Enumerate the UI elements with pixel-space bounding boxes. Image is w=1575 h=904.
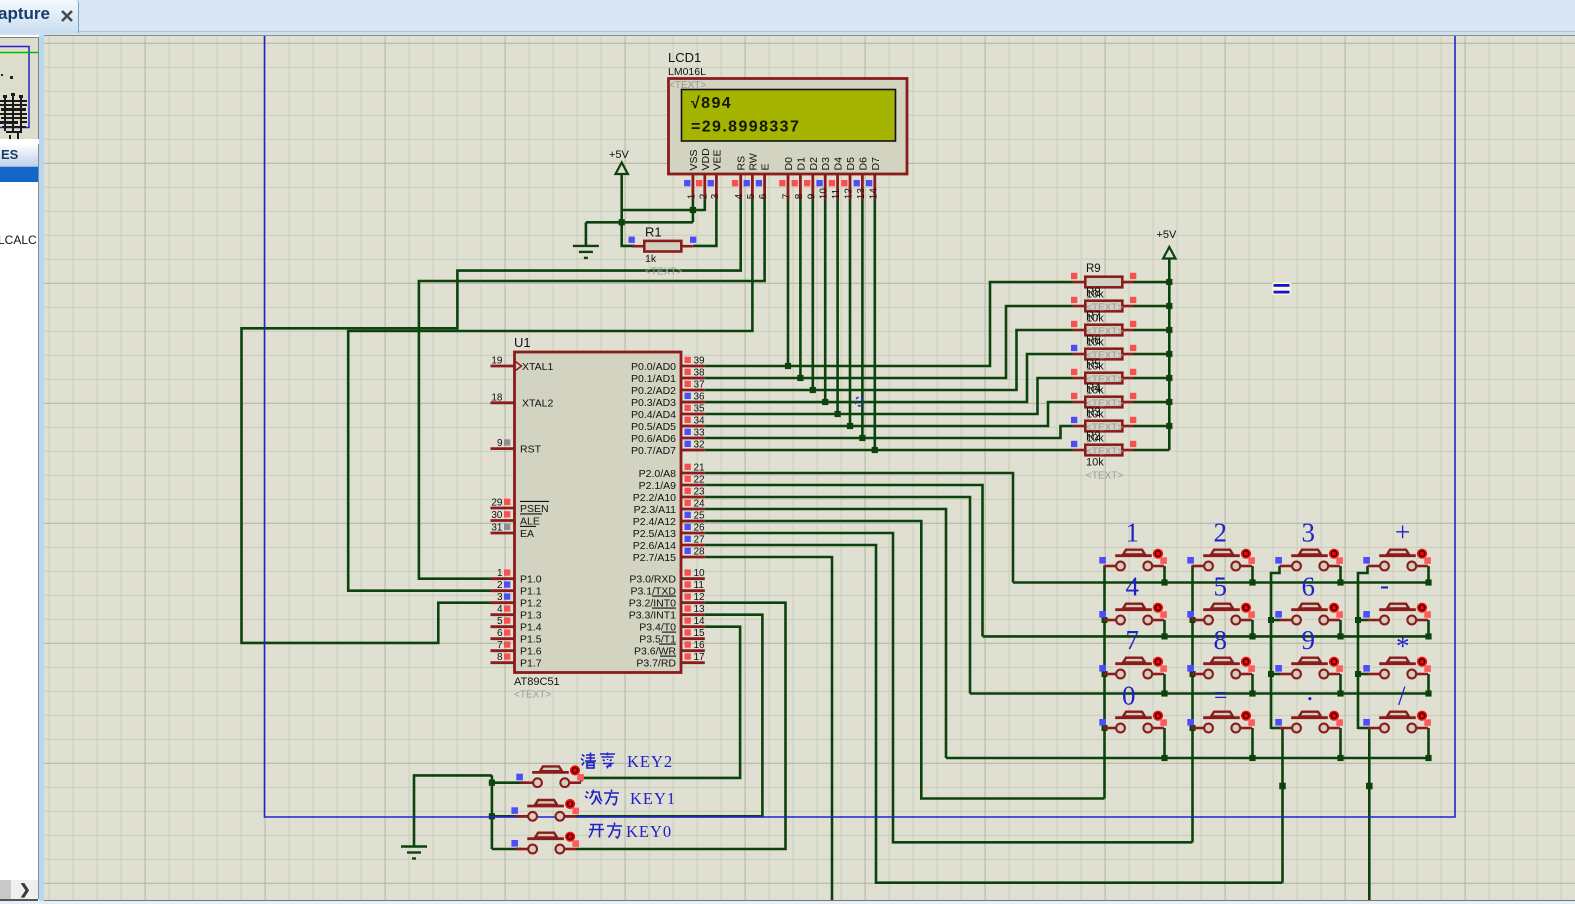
key r2c2 blue state square — [1187, 611, 1194, 618]
node junction D6/P0.6 — [859, 435, 865, 441]
svg-text:12: 12 — [694, 592, 706, 603]
U1 pin 17 P3.7/RD — [681, 661, 705, 664]
U1 pin 38 P0.1/AD1 — [681, 377, 705, 380]
wire keypad row1 bus — [1013, 581, 1430, 584]
node junction rail/R7 — [1166, 327, 1172, 333]
svg-text:4: 4 — [497, 604, 503, 615]
wire net P2.7 from U1 to keypad — [705, 557, 832, 904]
svg-text:4: 4 — [734, 193, 745, 199]
node junction D5/P0.5 — [847, 423, 853, 429]
svg-text:8: 8 — [497, 652, 503, 663]
U1 pin 10 P3.0/RXD — [681, 577, 705, 580]
svg-text:=: = — [1214, 683, 1228, 709]
key r1c1 blue state square — [1099, 557, 1106, 564]
U1 pin 39 P0.0/AD0 — [681, 365, 705, 368]
node junction col2 stub — [1190, 617, 1196, 623]
svg-text:21: 21 — [694, 463, 706, 474]
wire R9 right lead to +5V rail — [1133, 281, 1169, 284]
wire keypad row3 bus — [970, 692, 1430, 695]
svg-text:VDD: VDD — [700, 148, 712, 171]
wire net P3.4 to KEY2 — [581, 627, 740, 782]
svg-text:34: 34 — [694, 416, 706, 427]
svg-text:R9: R9 — [1086, 263, 1101, 275]
R4 labels and state squares — [1071, 383, 1136, 434]
node junction r1c2/row bus — [1249, 579, 1255, 585]
wire LCD D7 vertical to P0.7 row — [873, 200, 876, 451]
svg-text:PSEN: PSEN — [520, 503, 549, 515]
wire net P2.5 from U1 to keypad — [705, 533, 1193, 842]
wire keypad btn r4c3 right drop — [1339, 728, 1342, 758]
svg-text:+: + — [1395, 517, 1410, 547]
svg-text:P2.5/A13: P2.5/A13 — [633, 528, 676, 540]
node junction D0/P0.0 — [785, 363, 791, 369]
key r2c1 blue state square — [1099, 611, 1106, 618]
node junction r1c3/row bus — [1337, 579, 1343, 585]
svg-text:P0.6/AD6: P0.6/AD6 — [631, 433, 676, 445]
svg-text:26: 26 — [694, 523, 706, 534]
wire net P3.3 to KEY1 — [576, 615, 762, 817]
svg-text:28: 28 — [694, 547, 706, 558]
svg-text:VEE: VEE — [711, 149, 723, 170]
svg-text:R5: R5 — [1086, 359, 1101, 371]
wire net P2.2 from U1 to keypad — [705, 497, 970, 694]
wire keypad column 4 — [1358, 566, 1369, 904]
svg-text:P3.3/INT1: P3.3/INT1 — [629, 610, 676, 622]
svg-text:7: 7 — [497, 640, 503, 651]
wire keypad btn r2c1 right drop — [1163, 620, 1166, 636]
svg-text:RW: RW — [747, 153, 759, 170]
node junction r2c3/row bus — [1337, 633, 1343, 639]
svg-text:P1.0: P1.0 — [520, 574, 542, 586]
push button key "0" (r4c1) — [1104, 711, 1167, 733]
R5 labels and state squares — [1071, 359, 1136, 410]
node junction KEY1 tap — [489, 813, 495, 819]
wire net P0.5 from U1 to R4 — [705, 402, 1074, 426]
wire net RS: LCD RS to U1 P1.2 — [242, 200, 741, 643]
svg-text:22: 22 — [694, 475, 706, 486]
svg-text:/: / — [1398, 681, 1406, 711]
U1 pin 4 P1.3 — [491, 613, 515, 616]
svg-text:LCD1: LCD1 — [668, 50, 701, 65]
U1 pin 7 P1.6 — [491, 649, 515, 652]
key r2c4 blue state square — [1363, 611, 1370, 618]
U1 pin 16 P3.6/WR — [681, 649, 705, 652]
svg-text:31: 31 — [491, 523, 503, 534]
wire LCD D1 vertical to P0.1 row — [799, 200, 802, 379]
node junction rail/R8 — [1166, 303, 1172, 309]
key r4c3 blue state square — [1275, 719, 1282, 726]
resistor R7 — [1073, 325, 1134, 336]
wire net P0.4 from U1 to R5 — [705, 378, 1074, 414]
svg-text:D4: D4 — [833, 157, 845, 171]
U1 pin 6 P1.5 — [491, 637, 515, 640]
wire LCD D0 vertical to P0.0 row — [787, 200, 790, 367]
key r4c2 blue state square — [1187, 719, 1194, 726]
svg-text:P0.3/AD3: P0.3/AD3 — [631, 397, 676, 409]
wire net P0.2 from U1 to R7 — [705, 330, 1074, 390]
svg-text:32: 32 — [694, 440, 706, 451]
wire keypad btn r4c4 right drop — [1427, 728, 1430, 758]
svg-text:1: 1 — [1126, 518, 1140, 548]
U1 pin 28 P2.7/A15 — [681, 556, 705, 559]
svg-text:10: 10 — [819, 188, 830, 200]
svg-text:D0: D0 — [783, 157, 795, 171]
svg-text:P3.7/RD: P3.7/RD — [636, 658, 676, 670]
svg-text:10: 10 — [694, 568, 706, 579]
node junction KEY2 tap — [489, 780, 495, 786]
node junction +5V/H2 — [619, 219, 625, 225]
U1 pin 27 P2.6/A14 — [681, 544, 705, 547]
node junction D3/P0.3 — [822, 399, 828, 405]
svg-text:P0.4/AD4: P0.4/AD4 — [631, 409, 676, 421]
node junction col3 lower — [1279, 783, 1286, 790]
node junction col1 stub — [1102, 617, 1108, 623]
KEY0 label (kai fang KEY0) — [589, 825, 604, 838]
svg-text:P1.2: P1.2 — [520, 598, 542, 610]
svg-text:3: 3 — [1302, 518, 1316, 548]
key r3c4 blue state square — [1363, 665, 1370, 672]
svg-text:RS: RS — [736, 156, 748, 171]
resistor R4 — [1073, 397, 1134, 408]
node junction col1 row4 — [1102, 725, 1108, 731]
wire net P2.3 from U1 to keypad — [705, 509, 946, 758]
node junction col2 row4 — [1190, 725, 1196, 731]
U1 pin 33 P0.6/AD6 — [681, 437, 705, 440]
wire net P0.1 from U1 to R8 — [705, 306, 1074, 378]
node junction r3c2/row bus — [1249, 690, 1255, 696]
resistor R9 — [1073, 277, 1134, 288]
R2 labels and state squares — [1071, 431, 1136, 482]
svg-text:P0.1/AD1: P0.1/AD1 — [631, 373, 676, 385]
node junction r3c1/row bus — [1161, 690, 1167, 696]
U1 XTAL1 clock input symbol — [516, 362, 522, 371]
wire R3 right lead to +5V rail — [1133, 425, 1169, 428]
svg-text:P0.7/AD7: P0.7/AD7 — [631, 445, 676, 457]
power +5V at resistor rail — [1157, 229, 1178, 259]
svg-text:0: 0 — [1122, 681, 1136, 711]
svg-text:33: 33 — [694, 428, 706, 439]
svg-text:9: 9 — [497, 438, 503, 449]
U1 pin 34 P0.5/AD5 — [681, 425, 705, 428]
key r2c3 blue state square — [1275, 611, 1282, 618]
svg-text:3: 3 — [497, 592, 503, 603]
wire net E: LCD E to U1 P1.0 — [419, 200, 765, 579]
node junction col4 stub — [1355, 617, 1361, 623]
svg-text:27: 27 — [694, 535, 706, 546]
push button key "9" (r3c3) — [1280, 657, 1343, 679]
svg-text:5: 5 — [497, 616, 503, 627]
svg-text:P0.0/AD0: P0.0/AD0 — [631, 361, 676, 373]
svg-text:XTAL1: XTAL1 — [522, 361, 553, 373]
wire net P2.0 from U1 to keypad — [705, 473, 1013, 583]
wire net P3.2 to KEY0 — [576, 603, 786, 849]
U1 pin 26 P2.5/A13 — [681, 532, 705, 535]
U1 pin 5 P1.4 — [491, 625, 515, 628]
svg-text:18: 18 — [491, 392, 503, 403]
svg-text:P2.3/A11: P2.3/A11 — [634, 504, 677, 516]
svg-text:6: 6 — [1302, 572, 1316, 602]
svg-text:KEY2: KEY2 — [627, 752, 673, 771]
wire net P0.7 from U1 to R2 — [705, 449, 1074, 452]
svg-text:P2.0/A8: P2.0/A8 — [639, 468, 677, 480]
svg-text:E: E — [760, 163, 772, 170]
U1 pin 37 P0.2/AD2 — [681, 389, 705, 392]
wire net P0.0 from U1 to R9 — [705, 282, 1074, 366]
wire ground stem near LCD — [585, 222, 588, 245]
svg-text:R1: R1 — [645, 225, 662, 240]
svg-text:R4: R4 — [1086, 383, 1101, 395]
node junction rail/R3 — [1166, 423, 1172, 429]
node junction r3c3/row bus — [1337, 690, 1343, 696]
push button key "3" (r1c3) — [1280, 549, 1343, 571]
wire R5 right lead to +5V rail — [1133, 377, 1169, 380]
svg-text:16: 16 — [694, 640, 706, 651]
node junction r2c1/row bus — [1161, 633, 1167, 639]
R7 labels and state squares — [1071, 311, 1136, 362]
wire keypad btn r4c2 right drop — [1251, 728, 1254, 758]
svg-text:P2.1/A9: P2.1/A9 — [639, 480, 677, 492]
svg-text:39: 39 — [694, 356, 706, 367]
wire keypad btn r4c1 right drop — [1163, 728, 1166, 758]
resistor R6 — [1073, 349, 1134, 360]
svg-text:2: 2 — [497, 580, 503, 591]
svg-text:P1.7: P1.7 — [520, 658, 542, 670]
KEY2 label (qing ling KEY2) — [581, 753, 596, 769]
wire keypad btn r3c2 right drop — [1251, 674, 1254, 694]
svg-text:XTAL2: XTAL2 — [522, 398, 553, 410]
node junction r3c4/row bus — [1425, 690, 1431, 696]
svg-text:29: 29 — [491, 498, 503, 509]
svg-text:11: 11 — [831, 188, 842, 199]
svg-text:9: 9 — [1302, 625, 1316, 655]
svg-text:24: 24 — [694, 499, 706, 510]
svg-text:<TEXT>: <TEXT> — [669, 80, 706, 91]
svg-text:P2.7/A15: P2.7/A15 — [633, 552, 676, 564]
sheet border (blue) — [265, 30, 1456, 817]
svg-text:+5V: +5V — [1157, 229, 1178, 241]
resistor R1 — [632, 241, 693, 252]
svg-text:D3: D3 — [820, 157, 832, 171]
key r3c3 blue state square — [1275, 665, 1282, 672]
R1 state squares — [629, 237, 635, 243]
wire keypad btn r1c2 right drop — [1251, 566, 1254, 583]
push button KEY1 (power) — [516, 799, 579, 821]
svg-text:√894: √894 — [691, 95, 732, 112]
svg-text:13: 13 — [856, 188, 867, 200]
svg-text:LM016L: LM016L — [668, 66, 706, 78]
wire keypad btn r3c4 right drop — [1427, 674, 1430, 694]
push button key "-" (r2c4) — [1368, 603, 1431, 625]
svg-text:1: 1 — [686, 193, 697, 199]
svg-text:<TEXT>: <TEXT> — [1086, 471, 1123, 482]
svg-text:ALE: ALE — [520, 515, 540, 527]
svg-text:P1.1: P1.1 — [520, 586, 542, 598]
U1 pin 19 XTAL1 — [491, 365, 515, 368]
svg-text:.: . — [1307, 676, 1314, 706]
svg-text:8: 8 — [794, 193, 805, 199]
node junction r2c2/row bus — [1249, 633, 1255, 639]
svg-text:15: 15 — [694, 628, 706, 639]
node junction rail/R9 — [1166, 279, 1172, 285]
svg-text:14: 14 — [694, 616, 706, 627]
svg-text:D5: D5 — [845, 157, 857, 171]
node junction rail/R4 — [1166, 399, 1172, 405]
svg-text:23: 23 — [694, 487, 706, 498]
svg-text:<TEXT>: <TEXT> — [645, 267, 682, 278]
push button key "1" (r1c1) — [1104, 549, 1167, 571]
U1 pin 12 P3.2/INT0 — [681, 601, 705, 604]
U1 pin 32 P0.7/AD7 — [681, 449, 705, 452]
wire VSS down to GND rail (H2) — [586, 200, 693, 223]
U1 pin 35 P0.4/AD4 — [681, 413, 705, 416]
wire keypad btn r1c3 right drop — [1339, 566, 1342, 583]
push button key "+" (r1c4) — [1368, 549, 1431, 571]
svg-text:6: 6 — [758, 193, 769, 199]
svg-text:AT89C51: AT89C51 — [514, 676, 560, 688]
svg-text:P2.6/A14: P2.6/A14 — [633, 540, 676, 552]
svg-text:KEY1: KEY1 — [630, 789, 676, 808]
ground near LCD — [573, 246, 599, 258]
U1 pin 31 EA — [491, 532, 515, 535]
node junction r4c3/row bus — [1337, 755, 1343, 761]
push button key "2" (r1c2) — [1192, 549, 1255, 571]
R8 labels and state squares — [1071, 287, 1136, 338]
svg-text:*: * — [1396, 631, 1410, 661]
R3 labels and state squares — [1071, 407, 1136, 458]
wire keypad btn r2c3 right drop — [1339, 620, 1342, 636]
svg-text:R3: R3 — [1086, 407, 1101, 419]
wire R4 right lead to +5V rail — [1133, 401, 1169, 404]
left panel: overview minimap — [0, 35, 44, 901]
push button key "=" (r4c2) — [1192, 711, 1255, 733]
push button key "7" (r3c1) — [1104, 657, 1167, 679]
svg-text:30: 30 — [491, 510, 503, 521]
svg-text:P3.0/RXD: P3.0/RXD — [629, 574, 676, 586]
svg-text:P2.4/A12: P2.4/A12 — [633, 516, 676, 528]
push button key "8" (r3c2) — [1192, 657, 1255, 679]
svg-text:EA: EA — [520, 528, 534, 540]
wire R6 right lead to +5V rail — [1133, 353, 1169, 356]
svg-text:3: 3 — [710, 193, 721, 199]
node junction D7/P0.7 — [872, 447, 878, 453]
wire keypad btn r2c2 right drop — [1251, 620, 1254, 636]
wire keypad btn r2c4 right drop — [1427, 620, 1430, 636]
U1 pin 30 ALE — [491, 519, 515, 522]
wire R7 right lead to +5V rail — [1133, 329, 1169, 332]
wire +5V rail of resistor network — [1168, 258, 1171, 451]
wire LCD D5 vertical to P0.5 row — [849, 200, 852, 427]
node junction r4c2/row bus — [1249, 755, 1255, 761]
resistor R3 — [1073, 421, 1134, 432]
wire LCD D6 vertical to P0.6 row — [861, 200, 864, 439]
push button key "." (r4c3) — [1280, 711, 1343, 733]
svg-text:5: 5 — [746, 193, 757, 199]
push button key "5" (r2c2) — [1192, 603, 1255, 625]
U1 pin 9 RST — [491, 447, 515, 450]
svg-text:D7: D7 — [870, 157, 882, 171]
svg-text:D6: D6 — [857, 157, 869, 171]
power +5V near LCD — [609, 149, 630, 174]
resistor R5 — [1073, 373, 1134, 384]
svg-text:D1: D1 — [795, 157, 807, 171]
U1 pin 21 P2.0/A8 — [681, 472, 705, 475]
wire keypad column 2 — [1191, 566, 1194, 842]
key r1c4 blue state square — [1363, 557, 1370, 564]
wire keypad row4 bus — [946, 757, 1430, 760]
svg-text:RST: RST — [520, 443, 542, 455]
wire KEY common vertical to ground — [414, 775, 526, 849]
svg-text:1: 1 — [497, 568, 503, 579]
node junction r4c4/row bus — [1425, 755, 1431, 761]
svg-text:11: 11 — [694, 580, 705, 591]
U1 pin 3 P1.2 — [491, 601, 515, 604]
LCD display LCD1 LM016L — [669, 79, 908, 175]
svg-text:P0.5/AD5: P0.5/AD5 — [631, 421, 676, 433]
wire keypad column 3 — [1271, 566, 1283, 883]
node junction D1/P0.1 — [797, 375, 803, 381]
U1 pin 25 P2.4/A12 — [681, 520, 705, 523]
svg-text:36: 36 — [694, 392, 706, 403]
selected "=" label (highlighted) — [1273, 283, 1291, 296]
node junction r2c4/row bus — [1425, 633, 1431, 639]
svg-text:R8: R8 — [1086, 287, 1101, 299]
svg-text:7: 7 — [782, 193, 793, 199]
push button KEY0 (sqrt) — [516, 832, 579, 854]
wire LCD D3 vertical to P0.3 row — [824, 200, 827, 403]
node junction D4/P0.4 — [835, 411, 841, 417]
node junction col2 stub — [1190, 671, 1196, 677]
svg-text:25: 25 — [694, 511, 706, 522]
svg-text:19: 19 — [491, 356, 503, 367]
svg-text:R7: R7 — [1086, 311, 1101, 323]
key r1c3 blue state square — [1275, 557, 1282, 564]
svg-text:7: 7 — [1126, 625, 1140, 655]
origin marker — [855, 397, 864, 406]
push button KEY2 (clear) — [521, 765, 584, 787]
key r4c1 blue state square — [1099, 719, 1106, 726]
wire net RW: LCD RW to U1 P1.1 — [348, 200, 752, 591]
microcontroller U1 AT89C51 body — [515, 352, 682, 673]
node junction VSS/H1 — [690, 207, 696, 213]
R9 labels and state squares — [1071, 263, 1136, 314]
node junction D2/P0.2 — [810, 387, 816, 393]
wire keypad row2 bus — [983, 635, 1430, 638]
wire net P2.6 from U1 to keypad — [705, 545, 1283, 883]
wire keypad btn r1c4 right drop — [1427, 566, 1430, 583]
svg-text:37: 37 — [694, 380, 706, 391]
node junction r1c1/row bus — [1161, 579, 1167, 585]
svg-text:VSS: VSS — [688, 149, 700, 170]
svg-text:+5V: +5V — [609, 149, 630, 161]
key r1c2 blue state square — [1187, 557, 1194, 564]
svg-text:P2.2/A10: P2.2/A10 — [633, 492, 676, 504]
push button key "4" (r2c1) — [1104, 603, 1167, 625]
U1 pin 15 P3.5/T1 — [681, 637, 705, 640]
svg-text:14: 14 — [868, 188, 879, 200]
push button key "6" (r2c3) — [1280, 603, 1343, 625]
svg-text:12: 12 — [844, 188, 855, 200]
svg-text:9: 9 — [806, 193, 817, 199]
wire net P0.3 from U1 to R6 — [705, 354, 1074, 402]
node junction col1 stub — [1102, 671, 1108, 677]
node junction rail/R6 — [1166, 351, 1172, 357]
key r3c1 blue state square — [1099, 665, 1106, 672]
svg-text:=29.8998337: =29.8998337 — [691, 119, 800, 136]
wire net P2.1 from U1 to keypad — [705, 485, 983, 636]
U1 pin 14 P3.4/T0 — [681, 625, 705, 628]
key r3c2 blue state square — [1187, 665, 1194, 672]
ground for KEY buttons — [401, 847, 427, 859]
